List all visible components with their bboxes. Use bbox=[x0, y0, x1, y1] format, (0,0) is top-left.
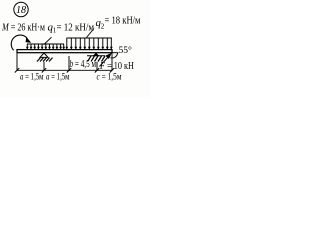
q1 arrowheads bbox=[26, 47, 65, 50]
leader line from q2 label bbox=[87, 29, 95, 38]
svg-text:a = 1,5м: a = 1,5м bbox=[20, 73, 44, 83]
svg-text:= 12 кН/м: = 12 кН/м bbox=[57, 21, 95, 33]
svg-text:18: 18 bbox=[16, 5, 26, 16]
distributed load q2 (tall arrows) bbox=[67, 38, 112, 49]
svg-text:55°: 55° bbox=[119, 45, 133, 56]
distributed load q1 (short arrows) bbox=[27, 44, 64, 49]
right support hatching bbox=[88, 56, 106, 62]
dimension slash marks bbox=[15, 68, 114, 72]
dimension ticks bbox=[17, 53, 112, 71]
problem number circle 18 bbox=[14, 2, 28, 16]
background bbox=[0, 0, 150, 98]
svg-text:b = 4,5 м: b = 4,5 м bbox=[70, 59, 97, 70]
leader line from q1 label bbox=[44, 37, 52, 44]
q2 arrowheads bbox=[65, 47, 112, 50]
svg-text:= 18 кН/м: = 18 кН/м bbox=[105, 15, 141, 27]
beam bbox=[17, 50, 112, 53]
force F inclined at 55 deg bbox=[100, 53, 112, 67]
svg-text:M = 26 кН·м: M = 26 кН·м bbox=[1, 21, 45, 33]
right support (roller on hatched surface) bbox=[87, 53, 105, 61]
left pinned support (triangle) bbox=[37, 53, 53, 62]
angle 55 arc and reference line bbox=[111, 53, 119, 58]
left support hatching bbox=[37, 58, 53, 62]
svg-text:c = 1,5м: c = 1,5м bbox=[97, 73, 122, 83]
dimension line bbox=[17, 69, 112, 71]
svg-text:a = 1,5м: a = 1,5м bbox=[46, 73, 70, 83]
moment arc M at left beam end bbox=[11, 35, 31, 50]
